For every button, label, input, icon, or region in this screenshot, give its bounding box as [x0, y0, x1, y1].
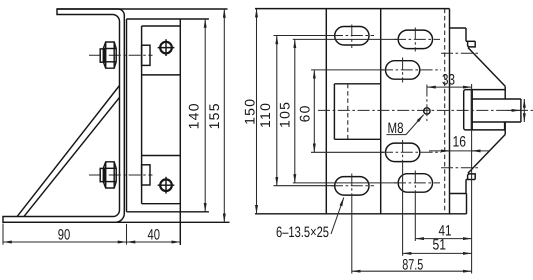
slot hole top-right 13.5x25 [398, 30, 432, 48]
side bracket upper step horizontal [466, 40, 475, 42]
dimension 33 line [427, 86, 472, 88]
dimension 51 line [403, 252, 472, 254]
channel rail right edge + 40-dim extension line [179, 19, 181, 245]
upper-middle slot vertical centerline stub [402, 58, 404, 83]
inner rectangle hidden edge (dashed) [347, 84, 349, 140]
inner rectangle opening top edge [334, 83, 380, 85]
side bracket upper step vertical [465, 28, 467, 41]
lower bevel vertical from boss [504, 122, 506, 135]
base plate bottom edge + 155-dim extension line [3, 221, 230, 223]
svg-text:33: 33 [442, 71, 455, 88]
top-left slot centerline + 110-dim extension [274, 35, 335, 37]
side bracket bottom edge [450, 193, 467, 195]
svg-text:105: 105 [276, 101, 292, 128]
inner plate lower division line [142, 155, 181, 157]
boss cylinder bottom edge [471, 121, 521, 123]
upper clip square [468, 41, 476, 47]
slot hole bottom-left 13.5x25 [335, 177, 369, 196]
left column vertical centerline top stub [351, 25, 353, 49]
dimension 90 line [3, 241, 127, 243]
boss cylinder right face [520, 99, 522, 122]
upper clip centerline [441, 52, 478, 54]
dimension 155 line [223, 9, 225, 222]
M8 label underline [387, 134, 407, 136]
lower-middle slot vertical centerline + 51 extension [402, 140, 404, 163]
side bracket base right vertical [466, 194, 468, 214]
svg-text:87.5: 87.5 [402, 257, 423, 274]
dimension 90/40 extension line left [2, 224, 4, 245]
lower clip centerline [441, 167, 478, 169]
gusset rib inner edge [24, 97, 120, 216]
upper-middle slot centerline + 60-dim extension [311, 69, 384, 71]
lower clip square [468, 174, 476, 180]
flange top edge extended as 155-dim extension line [57, 8, 228, 10]
dimension 16 right outside arrow [472, 150, 481, 152]
bottom-right slot vertical centerline + 41 extension [414, 171, 416, 197]
svg-text:90: 90 [58, 227, 71, 244]
boss cylinder top edge [471, 98, 521, 100]
lower bevel diagonal [468, 135, 505, 174]
M8 tapped hole [424, 108, 430, 114]
upper bevel vertical to boss [504, 86, 506, 99]
boss diameter dimension line [523, 99, 525, 122]
slot hole upper-middle 13.5x25 [386, 61, 420, 79]
channel rail bottom edge + 140-dim extension line [127, 211, 209, 213]
left column vertical centerline bottom + 87.5 extension [351, 174, 353, 199]
inner rectangle opening left edge [333, 84, 335, 140]
inner mounting plate bottom edge [142, 203, 181, 205]
top flange + vertical plate + base (bent L-bracket outer contour) [3, 9, 124, 222]
bottom bolt centerline [89, 174, 153, 176]
inner mounting plate top edge [142, 25, 181, 27]
upper bevel diagonal [468, 48, 505, 87]
dimension 40 line [127, 241, 181, 243]
bottom bolt pad on plate [142, 165, 150, 185]
top-right slot vertical centerline stub [414, 28, 416, 52]
svg-text:M8: M8 [388, 120, 404, 137]
slot hole bottom-right 13.5x25 [398, 174, 432, 193]
dimension 110 line [276, 36, 278, 186]
dimension 16 left outside arrow [441, 150, 450, 152]
top bolt pad on plate [142, 45, 150, 65]
svg-text:140: 140 [185, 102, 201, 129]
dimension 60 line [313, 70, 315, 152]
dimension 41 line [415, 238, 471, 240]
svg-text:60: 60 [296, 104, 312, 122]
svg-text:110: 110 [257, 102, 273, 128]
svg-text:51: 51 [433, 237, 447, 254]
bottom bolt hex nut [103, 162, 116, 188]
svg-text:6–13.5×25: 6–13.5×25 [276, 224, 329, 241]
M8 label leader line [406, 115, 424, 135]
top-right slot centerline + 105-dim extension [293, 38, 397, 40]
boss centerline arrow [507, 109, 520, 111]
dimension 87.5 line [352, 270, 472, 272]
svg-text:150: 150 [242, 98, 258, 125]
dimension 105 line [294, 39, 296, 183]
top bolt washer [100, 49, 104, 62]
side bracket lower step vertical [465, 180, 467, 194]
bottom bolt washer [100, 168, 104, 181]
slot callout leader 6-13.5x25 [331, 198, 344, 235]
clamp face extension line (long) [471, 84, 473, 274]
dimension 140 line [204, 19, 206, 212]
side bracket top edge [450, 27, 467, 29]
top bolt hex nut [103, 42, 116, 68]
bottom cross-hole symbol [158, 177, 175, 194]
inner rectangle opening bottom edge [334, 138, 380, 140]
svg-text:16: 16 [453, 133, 467, 150]
main plate left edge [325, 9, 327, 214]
svg-text:155: 155 [206, 102, 222, 129]
slot hole top-left 13.5x25 [335, 27, 369, 46]
hidden back face line (dashed) [444, 9, 446, 213]
inner plate upper division line [142, 74, 181, 76]
top bolt centerline [89, 54, 153, 56]
dimension 90/40 extension line middle [126, 224, 128, 245]
dimension 150 line [256, 9, 258, 214]
slot hole lower-middle 13.5x25 [386, 143, 420, 162]
bottom-left slot centerline + 110-dim extension [274, 185, 335, 187]
clamp plate rounded rectangle [464, 90, 505, 130]
channel rail front face [126, 19, 128, 212]
gusset rib outer edge [17, 86, 120, 217]
M8 hole vertical centerline + 33-dim extension [426, 85, 428, 122]
side bracket lower step horizontal [466, 179, 475, 181]
svg-text:40: 40 [148, 227, 161, 244]
bottom-right slot centerline + 105-dim extension [293, 182, 397, 184]
clamp rounded rect right stub lower [504, 122, 506, 130]
main plate right edge / side bracket left face [449, 9, 451, 214]
plate column divider line [380, 9, 382, 214]
main plate top edge + 150-dim extension [255, 8, 450, 10]
top cross-hole symbol [158, 39, 175, 56]
lower-middle slot centerline + 60-dim extension [311, 151, 384, 153]
main horizontal centerline [318, 109, 533, 111]
channel rail top edge + 140-dim extension line [127, 18, 209, 20]
inner mounting plate left edge [141, 26, 143, 204]
dimension 16 line [429, 150, 490, 152]
main plate bottom edge + 150-dim extension [255, 213, 467, 215]
bold clamp face line [471, 90, 473, 130]
